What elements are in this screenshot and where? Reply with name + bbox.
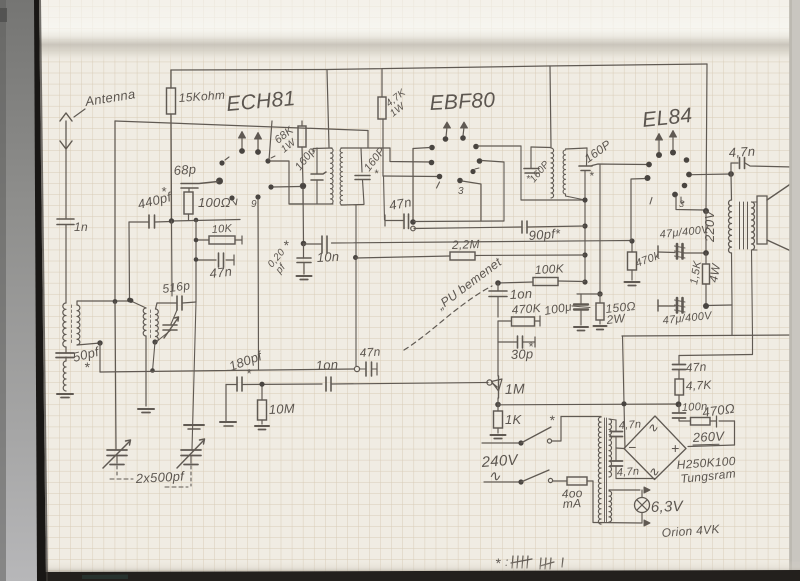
tube EBF80 pin a2: [473, 144, 521, 150]
resistor 4,7K 1W: [378, 70, 409, 120]
ferrite coil: [63, 361, 66, 391]
IF1 secondary top wire: [341, 147, 390, 149]
capacitor 68p: [173, 161, 218, 192]
resistor 4,7K NFB: [675, 378, 713, 404]
wire B+ top rail: [171, 64, 707, 70]
capacitor 47u/400V second: [658, 298, 714, 327]
wire B+ drop IF2: [550, 66, 551, 147]
switch mains 2: [484, 470, 567, 485]
wire transformer bottom: [593, 522, 642, 525]
node NFB junction: [676, 401, 682, 407]
wire NFB down: [679, 336, 753, 356]
tube EBF80 heater pin 2: [460, 122, 467, 141]
capacitor 4,7n lower: [610, 448, 640, 479]
wire 220V rail: [702, 64, 717, 253]
svg-text:mA: mA: [562, 496, 581, 511]
label H250K100: [676, 454, 736, 472]
svg-text:100Ω: 100Ω: [198, 195, 231, 210]
svg-text:47n: 47n: [209, 264, 233, 281]
IF1 secondary bottom wire: [341, 204, 364, 207]
ground 180pf branch: [220, 422, 236, 426]
label EL84: [641, 104, 693, 132]
oscillator coil secondary: [156, 303, 159, 342]
svg-text:∿: ∿: [647, 420, 658, 435]
ground 10M: [255, 426, 269, 430]
svg-text:−: −: [628, 439, 636, 455]
svg-text:10n: 10n: [316, 249, 339, 265]
resistor 100ohm: [184, 192, 231, 220]
tube EBF80 pin d: [457, 178, 481, 221]
node: [194, 218, 199, 223]
node terminal circle: [354, 366, 359, 371]
svg-text:1n: 1n: [74, 220, 88, 234]
node EL84 anode: [728, 171, 734, 177]
IF2 primary cap 160p: [524, 147, 552, 185]
svg-text:EBF80: EBF80: [429, 89, 496, 115]
tube EBF80 pin g2: [437, 174, 443, 188]
ground TC2: [184, 425, 204, 429]
label Tungsram: [680, 466, 737, 486]
label PU bemenet: [404, 255, 504, 350]
wire triode anode: [271, 161, 303, 204]
ground 150ohm: [594, 326, 607, 330]
capacitor 47n: [194, 238, 234, 281]
IF1 secondary winding: [340, 148, 342, 205]
ground oscillator: [138, 409, 154, 413]
tube EL84 tick 3: [679, 197, 684, 209]
wire bridge bottom: [616, 478, 655, 480]
trimmer capacitor osc: [163, 310, 179, 338]
ground 1K: [491, 435, 506, 439]
label 240V: [480, 451, 520, 485]
wire diode return: [414, 220, 504, 223]
label 2x500pf: [110, 466, 191, 487]
wire 260V: [688, 421, 735, 447]
svg-text:*: *: [589, 169, 594, 183]
wire screen: [383, 119, 439, 177]
resistor 68K 1W: [272, 121, 306, 184]
wire transformer top: [561, 416, 601, 418]
wire screen to 47n: [384, 176, 385, 220]
antenna coil core: [71, 305, 73, 345]
capacitor 47n cathode: [385, 194, 413, 228]
tube ECH81 pin 9: [251, 194, 261, 210]
mains transformer secondary HT: [609, 419, 612, 477]
resistor 100K: [495, 261, 585, 285]
IF1 secondary cap 160p: [355, 145, 388, 204]
tube EL84 pin g3: [645, 175, 651, 181]
wire pot to PS: [499, 403, 677, 406]
label ECH81: [225, 87, 296, 116]
resistor 2,2M: [356, 237, 586, 260]
wire to tuning cap: [115, 302, 116, 449]
capacitor 30p: [498, 321, 535, 362]
page curl bright band + shadow: [37, 0, 792, 62]
label EBF80: [429, 89, 496, 115]
wire: [195, 220, 197, 302]
antenna coil T1 primary: [63, 303, 66, 347]
bridge rectifier H250K100: [624, 416, 686, 480]
wire B+ drop IF1: [327, 70, 329, 147]
svg-text:4,7n: 4,7n: [616, 465, 639, 479]
antenna label: [74, 86, 136, 117]
wire output ground rail: [622, 335, 795, 336]
node osc bottom: [152, 330, 171, 345]
scanner background left: [0, 0, 60, 581]
wire IF1 sec down: [353, 205, 358, 366]
svg-text:9: 9: [251, 199, 257, 210]
variable capacitor TC2: [177, 439, 205, 468]
svg-text:*: *: [283, 237, 289, 253]
mains transformer core: [605, 418, 607, 522]
tube ECH81 heater pin 1: [239, 132, 246, 154]
svg-text:1M: 1M: [505, 380, 526, 397]
schematic ink: [0, 0, 1, 1]
svg-text:10K: 10K: [211, 223, 233, 236]
node triode anode: [268, 183, 306, 190]
IF2 primary top wire: [531, 146, 551, 149]
svg-text:1on: 1on: [509, 286, 532, 302]
tube ECH81 pin a-t: [265, 156, 275, 164]
svg-text:3: 3: [679, 199, 684, 209]
wire bridge minus feed: [621, 336, 626, 448]
legend star: [495, 555, 509, 571]
tube ECH81 pin k: [229, 195, 237, 205]
svg-text:4,7n: 4,7n: [618, 418, 641, 432]
svg-text:*: *: [374, 168, 379, 180]
wire AVC long: [332, 241, 633, 244]
wire AF line right: [332, 383, 489, 385]
bottom shadow + dark band: [37, 560, 800, 573]
wire main bus top: [115, 121, 368, 148]
svg-text:*: *: [161, 184, 167, 199]
capacitor 10n AF: [315, 357, 338, 391]
mains transformer secondary heater: [609, 491, 612, 522]
wire secondary top: [77, 301, 130, 305]
tube EL84 pin a: [686, 172, 731, 178]
wire osc gnd: [145, 336, 147, 406]
wire osc to rail: [150, 342, 155, 373]
wire: [65, 225, 67, 303]
output transformer secondary: [752, 202, 755, 250]
oscillator coil core: [150, 310, 152, 338]
IF1 primary bottom wire: [289, 203, 333, 205]
tube ECH81 pin g: [219, 157, 229, 166]
node B+ 260V: [703, 303, 709, 309]
svg-text:2,2M: 2,2M: [451, 237, 480, 252]
wire AF line: [243, 383, 323, 386]
tube EL84 pin k: [672, 192, 704, 210]
wire anode to bus: [269, 121, 272, 160]
IF2 secondary cap 160P: [579, 137, 614, 183]
IF1 primary coil: [331, 148, 334, 204]
capacitor 4,7n tone: [728, 144, 793, 174]
tube EL84 tick 1: [650, 198, 652, 205]
oscillator coil primary: [129, 298, 146, 336]
IF2 primary bottom wire: [521, 199, 585, 201]
svg-text:100K: 100K: [534, 261, 565, 277]
svg-text:4,7n: 4,7n: [728, 144, 755, 160]
capacitor 440pf: [129, 184, 174, 228]
resistor 150ohm 2W: [596, 294, 637, 327]
capacitor 50pf: [56, 344, 101, 375]
legend tally marks: [511, 556, 563, 569]
svg-text:260V: 260V: [691, 428, 725, 445]
resistor 10K: [196, 223, 242, 244]
lamp 6,3V: [609, 487, 685, 526]
wire: [577, 293, 602, 295]
node pot bottom: [495, 398, 501, 411]
ground 0,20pf: [297, 276, 312, 280]
svg-text:*: *: [528, 339, 534, 354]
resistor 1,5K 4W: [688, 253, 723, 306]
capacitor 100u: [543, 294, 590, 325]
tube EL84 pin 9: [682, 183, 688, 189]
tube ECH81 grid pin: [216, 178, 223, 185]
resistor 10M: [258, 382, 296, 424]
node secondary bottom: [77, 340, 103, 345]
IF1 primary top wire: [313, 147, 332, 150]
wire osc rail: [100, 369, 354, 372]
capacitor 516p: [157, 278, 196, 310]
capacitor 90pf: [414, 221, 585, 243]
output transformer primary: [728, 174, 731, 253]
resistor 1K: [494, 411, 523, 433]
wire NFB from secondary: [752, 250, 753, 336]
wire IF2 to EL84 grid: [592, 164, 648, 166]
right page edge: [790, 0, 800, 581]
switch mains 1: [482, 412, 561, 446]
ground antenna: [57, 394, 73, 398]
capacitor 100n: [673, 401, 708, 421]
IF2 secondary bottom: [566, 194, 586, 200]
wire primary to B+: [707, 253, 733, 336]
tube EL84 heater pin 2: [670, 131, 677, 156]
svg-text:1on: 1on: [315, 357, 338, 373]
variable capacitor TC1: [103, 440, 131, 468]
tube EBF80 heater pin 1: [443, 122, 451, 142]
svg-text:10M: 10M: [268, 401, 295, 417]
wire box left edge: [113, 121, 118, 304]
svg-text:3: 3: [458, 186, 464, 197]
capacitor 1n antenna: [57, 219, 88, 234]
potentiometer 1M: [487, 342, 525, 398]
IF2 secondary winding: [563, 150, 565, 194]
svg-text:*: *: [246, 366, 252, 381]
wire AVC rail: [582, 171, 587, 285]
wire: [99, 343, 101, 372]
tube ECH81 heater pin 2: [255, 133, 262, 155]
capacitor 180pf: [226, 348, 265, 421]
svg-text:2x500pf: 2x500pf: [134, 468, 185, 486]
svg-text:6,3V: 6,3V: [651, 498, 685, 516]
svg-text:+: +: [671, 440, 679, 456]
wire: [171, 221, 174, 296]
resistor 470ohm: [691, 401, 736, 427]
capacitor 10n det: [489, 283, 533, 317]
ground 100u: [574, 327, 588, 331]
black book spine strip: [34, 0, 46, 581]
capacitor 47n rail: [359, 345, 381, 376]
wire antenna lead: [65, 149, 67, 218]
tube EBF80 pin k: [470, 168, 479, 174]
wire grid bus: [169, 218, 240, 223]
IF2 primary left can: [520, 146, 522, 200]
wire EL84 grid: [631, 179, 646, 242]
wire speaker right: [793, 167, 795, 335]
IF2 secondary top: [566, 148, 588, 165]
svg-text:68p: 68p: [173, 161, 197, 178]
svg-text:470K: 470K: [511, 301, 542, 317]
tube EBF80 pin a: [413, 145, 435, 151]
tube EL84 heater pin 1: [656, 134, 663, 159]
wire screen rail x600: [597, 165, 602, 297]
svg-text:47n: 47n: [359, 345, 381, 360]
antenna coil T1 secondary: [77, 305, 80, 345]
tube EBF80 pin d2: [477, 158, 504, 221]
svg-text:1K: 1K: [505, 412, 523, 427]
capacitor 47u/400V first: [658, 224, 711, 259]
capacitor 4,7n upper: [609, 418, 642, 448]
tube EBF80 pin g1: [429, 160, 435, 166]
wire 440p to osc: [127, 222, 132, 302]
tube EL84 pin 7: [684, 157, 690, 163]
capacitor 0,20pf: [266, 237, 311, 277]
mains transformer primary: [598, 417, 601, 524]
svg-text:2W: 2W: [605, 311, 627, 327]
ground 470k: [625, 282, 640, 286]
speaker: [752, 183, 793, 251]
wire TC2 up: [192, 302, 196, 449]
resistor 470k grid: [628, 238, 662, 280]
antenna symbol: [60, 113, 72, 149]
svg-text:∿: ∿: [648, 464, 659, 479]
ghost writing: [661, 522, 721, 540]
wire anode down: [301, 188, 307, 246]
capacitor 47n NFB: [673, 356, 708, 380]
tube EL84 pin g1: [646, 162, 652, 168]
wire grid EBF80: [390, 148, 431, 162]
fuse 400mA: [561, 477, 593, 522]
svg-text:4,7K: 4,7K: [685, 378, 712, 393]
resistor 470K det: [498, 301, 542, 326]
wire cathode bus: [410, 149, 416, 231]
capacitor 10n AVC: [304, 236, 340, 265]
svg-text:90pf*: 90pf*: [528, 226, 561, 243]
svg-text:47n: 47n: [685, 360, 707, 375]
IF2 primary coil: [551, 148, 554, 198]
resistor 15Kohm: [167, 70, 226, 220]
wire cathode down: [257, 199, 260, 370]
output transformer core: [740, 202, 748, 249]
IF1 primary cap 160p: [293, 145, 326, 204]
svg-text:*: *: [84, 359, 90, 375]
svg-text:*: *: [549, 412, 555, 428]
